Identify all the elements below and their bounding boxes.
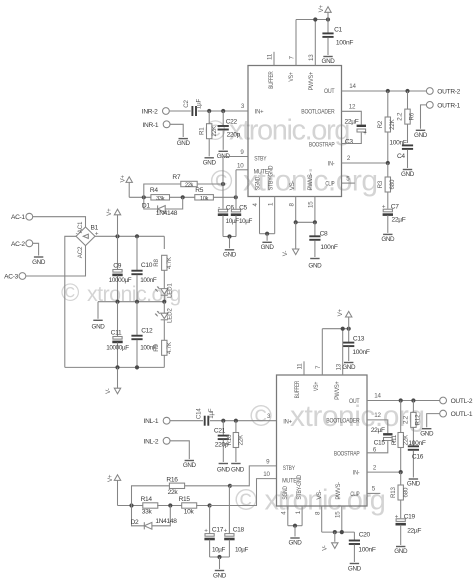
svg-text:GND: GND xyxy=(407,481,421,488)
svg-text:R15: R15 xyxy=(179,496,191,503)
svg-text:10: 10 xyxy=(263,471,270,478)
svg-text:C11: C11 xyxy=(111,329,122,336)
svg-text:C9: C9 xyxy=(113,262,121,269)
svg-text:C21: C21 xyxy=(214,427,226,434)
svg-text:OUTR-1: OUTR-1 xyxy=(437,103,460,110)
svg-text:AC1: AC1 xyxy=(77,221,84,233)
svg-text:C5: C5 xyxy=(239,205,247,212)
svg-text:VS-: VS- xyxy=(289,181,296,191)
capacitor C20 100nF xyxy=(349,531,376,562)
svg-text:IN-: IN- xyxy=(328,160,335,167)
svg-text:PWVS+: PWVS+ xyxy=(334,381,341,400)
svg-text:GND: GND xyxy=(414,132,428,139)
svg-text:C4: C4 xyxy=(397,153,405,160)
svg-text:7: 7 xyxy=(315,365,322,369)
ground R1 xyxy=(203,158,217,167)
ground C17 C18 xyxy=(213,571,227,580)
svg-text:12: 12 xyxy=(374,412,381,419)
svg-text:©: © xyxy=(235,484,257,517)
svg-text:R12: R12 xyxy=(414,414,421,426)
svg-text:14: 14 xyxy=(349,83,356,90)
terminal INL-1 xyxy=(144,417,170,425)
diode D2 1N4148 xyxy=(131,506,178,530)
svg-text:GND: GND xyxy=(32,259,46,266)
svg-text:GND: GND xyxy=(92,324,106,331)
capacitor C7 22uF xyxy=(382,204,406,233)
svg-text:22K: 22K xyxy=(211,125,218,136)
svg-text:R14: R14 xyxy=(141,496,153,503)
terminal AC-3 xyxy=(4,273,26,281)
svg-text:C16: C16 xyxy=(412,453,424,460)
wire BOOTLOADER pin 12 loop IC2 xyxy=(367,412,388,433)
svg-text:680: 680 xyxy=(402,487,409,497)
svg-text:GND: GND xyxy=(183,462,197,469)
LED2 xyxy=(155,302,173,341)
svg-text:IN+: IN+ xyxy=(283,419,292,426)
wire C6 C5 join to ground xyxy=(223,234,236,248)
svg-text:C19: C19 xyxy=(404,513,416,520)
wire STBY pin 9 xyxy=(223,149,248,209)
svg-text:R4: R4 xyxy=(150,187,158,194)
wire INR-1 to ground xyxy=(170,124,183,137)
svg-text:V-: V- xyxy=(322,545,329,551)
svg-text:V-: V- xyxy=(105,388,112,394)
svg-text:8: 8 xyxy=(288,203,295,207)
svg-text:IN-: IN- xyxy=(353,470,360,477)
capacitor C6 10uF xyxy=(218,204,235,236)
svg-text:22µF: 22µF xyxy=(345,119,359,126)
svg-text:INL-2: INL-2 xyxy=(144,438,159,445)
svg-text:22k: 22k xyxy=(185,183,194,189)
pins 8 and 15 rail xyxy=(288,197,317,225)
svg-text:AC-1: AC-1 xyxy=(11,214,25,221)
wire V- rail xyxy=(65,365,165,369)
ground C19 xyxy=(394,547,408,556)
svg-text:GND: GND xyxy=(217,467,231,474)
pin 13 riser xyxy=(308,20,315,66)
capacitor C2 1uF xyxy=(183,98,203,116)
wire AC-1 to bridge xyxy=(33,217,86,227)
svg-text:V-: V- xyxy=(282,251,289,257)
wire V+ to R4 xyxy=(129,195,151,199)
wire R5 to mute column xyxy=(214,195,238,199)
svg-text:©: © xyxy=(211,165,233,198)
svg-text:LED1: LED1 xyxy=(167,283,174,298)
svg-text:GND: GND xyxy=(308,263,322,270)
svg-text:+: + xyxy=(363,130,367,137)
svg-text:LED2: LED2 xyxy=(167,308,174,323)
ground C7 xyxy=(381,234,395,243)
svg-text:V+: V+ xyxy=(107,474,114,482)
pin 13 riser IC2 xyxy=(335,329,342,375)
svg-text:GND: GND xyxy=(213,573,227,580)
resistor R15 10k xyxy=(179,496,197,515)
pins 4 and 1 to ground IC2 xyxy=(281,506,303,537)
svg-text:C2: C2 xyxy=(183,99,190,107)
resistor R3 680 xyxy=(377,163,396,209)
svg-text:OUTR-2: OUTR-2 xyxy=(437,89,460,96)
svg-text:D1: D1 xyxy=(142,202,150,209)
capacitor C1 100nF xyxy=(322,20,353,56)
svg-text:2: 2 xyxy=(347,155,351,162)
power flag V+ (mute network R) xyxy=(119,175,132,198)
resistor R2 22K xyxy=(377,91,396,163)
capacitor C21 220p xyxy=(214,421,229,462)
wire C14 to IN+ pin 3 IC2 xyxy=(210,413,277,423)
capacitor C10 100nF xyxy=(131,236,156,301)
svg-text:100nF: 100nF xyxy=(336,40,353,47)
svg-text:11: 11 xyxy=(297,363,304,370)
svg-text:10k: 10k xyxy=(200,196,209,202)
wire C17 C18 join to ground xyxy=(210,555,230,569)
capacitor C11 10000uF xyxy=(106,302,129,368)
wire V+ rail xyxy=(95,234,164,238)
ground INR-1 xyxy=(177,139,191,148)
svg-text:R5: R5 xyxy=(195,187,203,194)
ground OUTL-1 xyxy=(420,429,434,438)
capacitor C16 100nF xyxy=(408,440,426,477)
resistor R10 22K xyxy=(226,421,245,462)
svg-text:14: 14 xyxy=(374,393,381,400)
svg-text:100nF: 100nF xyxy=(140,345,157,352)
op-amp IC1 TDA7294 (right channel) xyxy=(248,66,342,197)
svg-text:GND: GND xyxy=(381,236,395,243)
svg-text:OUT: OUT xyxy=(349,398,360,405)
resistor R4 33k xyxy=(150,187,170,202)
wire BOOSTRAP pin 6 loop xyxy=(342,133,362,144)
svg-text:2.2: 2.2 xyxy=(403,415,410,424)
svg-text:R8: R8 xyxy=(153,258,160,266)
svg-text:+: + xyxy=(382,204,386,211)
svg-text:R10: R10 xyxy=(226,434,233,446)
wire OUTL-1 to ground xyxy=(427,414,440,428)
resistor R14 33k xyxy=(141,496,158,515)
svg-text:OUTL-1: OUTL-1 xyxy=(451,411,473,418)
svg-text:9: 9 xyxy=(266,458,270,465)
ground pins 4 1 xyxy=(261,242,275,251)
svg-text:GND: GND xyxy=(394,548,408,555)
svg-text:VS+: VS+ xyxy=(288,72,295,82)
ground R10 xyxy=(217,464,245,474)
svg-text:22k: 22k xyxy=(168,489,179,496)
svg-text:PWVS-: PWVS- xyxy=(307,173,314,191)
svg-text:V+: V+ xyxy=(106,208,113,216)
ground C16 xyxy=(407,479,421,488)
svg-text:4.7K: 4.7K xyxy=(166,341,173,354)
svg-text:GND: GND xyxy=(177,140,191,147)
wire V+ rail IC1 xyxy=(296,17,330,21)
resistor R1 22K xyxy=(198,111,218,156)
pin 11 stub IC2 xyxy=(297,361,304,375)
wire C2 to IN+ pin 3 xyxy=(198,109,248,113)
svg-text:SGND: SGND xyxy=(282,486,289,500)
svg-text:C14: C14 xyxy=(196,408,203,420)
wire V+ to R14 xyxy=(118,503,144,507)
terminal OUTL-1 xyxy=(440,410,473,418)
svg-text:SGND: SGND xyxy=(255,176,262,190)
svg-text:2: 2 xyxy=(373,464,377,471)
svg-text:+: + xyxy=(224,527,228,534)
svg-text:CLIP: CLIP xyxy=(350,491,359,498)
wire MUTE pin 10 xyxy=(236,163,248,209)
ground C22 xyxy=(217,151,231,160)
svg-text:R1: R1 xyxy=(198,127,205,135)
svg-text:22µF: 22µF xyxy=(407,527,421,534)
svg-text:15: 15 xyxy=(308,201,315,208)
wire INL-2 to ground xyxy=(170,441,190,459)
capacitor C3 22uF xyxy=(345,119,368,146)
svg-text:10µF: 10µF xyxy=(239,218,253,225)
capacitor C5 10uF xyxy=(226,205,253,237)
svg-text:GND: GND xyxy=(401,171,415,178)
resistor R13 680 xyxy=(390,472,410,518)
wire AC-2 to ground xyxy=(33,243,39,255)
ground mid rail xyxy=(92,302,106,331)
svg-text:R2: R2 xyxy=(377,120,384,128)
svg-text:22K: 22K xyxy=(238,434,245,445)
pins 8 and 15 rail IC2 xyxy=(314,506,354,534)
resistor R11 22K xyxy=(391,401,410,473)
svg-text:INR-2: INR-2 xyxy=(142,109,158,116)
svg-text:10µF: 10µF xyxy=(226,218,240,225)
wire CLIP pin 5 stub xyxy=(342,176,355,184)
bridge rectifier B1 xyxy=(76,221,99,258)
svg-text:+: + xyxy=(204,527,208,534)
svg-text:V+: V+ xyxy=(318,4,325,12)
pin 11 stub xyxy=(267,52,274,66)
svg-text:33k: 33k xyxy=(142,509,153,516)
ground AC-2 xyxy=(32,257,46,266)
svg-text:©: © xyxy=(61,279,80,307)
power flag V- (IC2) xyxy=(322,532,338,551)
capacitor C12 100nF xyxy=(131,302,156,368)
svg-text:C20: C20 xyxy=(359,531,371,538)
svg-text:100nF: 100nF xyxy=(358,547,375,554)
ground C13 xyxy=(342,363,356,372)
svg-text:10µF: 10µF xyxy=(212,547,226,554)
svg-text:C17: C17 xyxy=(212,527,224,534)
svg-text:12: 12 xyxy=(349,104,356,111)
svg-text:GND: GND xyxy=(223,251,237,258)
ground C6 C5 xyxy=(223,250,237,259)
svg-text:C10: C10 xyxy=(141,262,153,269)
wire OUT pin 14 IC2 xyxy=(367,393,440,403)
svg-text:VS-: VS- xyxy=(316,490,323,500)
svg-text:4.7K: 4.7K xyxy=(166,256,173,269)
svg-text:AC2: AC2 xyxy=(77,246,84,258)
svg-text:10000µF: 10000µF xyxy=(109,277,132,284)
svg-text:2.2: 2.2 xyxy=(397,112,404,121)
ground C20 xyxy=(348,564,362,573)
svg-text:3: 3 xyxy=(241,103,245,110)
svg-text:4: 4 xyxy=(252,203,259,207)
pin 7 riser IC2 xyxy=(315,329,322,375)
svg-text:GND: GND xyxy=(420,430,434,437)
capacitor C8 100nF xyxy=(309,222,338,257)
capacitor C14 1uF xyxy=(196,408,216,426)
svg-text:C7: C7 xyxy=(391,204,399,211)
svg-text:13: 13 xyxy=(308,54,315,61)
svg-text:V+: V+ xyxy=(119,175,126,183)
power flag V- (IC1) xyxy=(282,222,299,256)
ground C21 xyxy=(219,463,228,465)
svg-text:33k: 33k xyxy=(156,196,165,202)
svg-text:GND: GND xyxy=(261,244,275,251)
svg-text:D2: D2 xyxy=(131,519,139,526)
svg-text:-: - xyxy=(218,204,220,211)
capacitor C19 22uF xyxy=(395,513,422,545)
svg-text:GND: GND xyxy=(322,58,336,65)
wire STBY pin 9 IC2 xyxy=(230,458,277,486)
svg-text:AC-2: AC-2 xyxy=(11,241,25,248)
capacitor C15 22uF xyxy=(371,427,395,447)
svg-text:STBY-GND: STBY-GND xyxy=(267,165,274,190)
svg-text:22µF: 22µF xyxy=(371,427,385,434)
svg-text:GND: GND xyxy=(348,566,362,573)
svg-text:100nF: 100nF xyxy=(320,244,337,251)
svg-text:BUFFER: BUFFER xyxy=(294,381,301,399)
svg-text:9: 9 xyxy=(240,149,244,156)
svg-text:R6: R6 xyxy=(408,112,415,120)
wire R4 to R5 xyxy=(169,195,194,199)
wire IN- pin 2 xyxy=(342,155,390,165)
svg-text:-: - xyxy=(76,230,78,237)
pin 7 riser xyxy=(289,20,296,66)
op-amp IC2 TDA7294 (left channel) xyxy=(277,375,368,506)
wire R14 to R15 xyxy=(157,503,182,507)
svg-text:R7: R7 xyxy=(172,174,180,181)
capacitor C17 10uF xyxy=(204,506,224,558)
wire R15 to MUTE step xyxy=(196,503,256,507)
svg-text:10µF: 10µF xyxy=(235,547,249,554)
terminal AC-2 xyxy=(11,240,33,248)
resistor R5 10k xyxy=(195,187,214,202)
svg-text:STBY-GND: STBY-GND xyxy=(296,475,303,500)
svg-text:GND: GND xyxy=(342,364,356,371)
svg-text:CLIP: CLIP xyxy=(325,181,334,188)
wire MUTE pin 10 IC2 xyxy=(210,471,277,506)
wire INL-1 to C14 xyxy=(170,420,203,422)
svg-text:15: 15 xyxy=(334,511,341,518)
svg-text:10: 10 xyxy=(237,163,244,170)
svg-text:1N4148: 1N4148 xyxy=(155,518,177,525)
svg-text:R11: R11 xyxy=(391,434,398,445)
svg-text:1N4148: 1N4148 xyxy=(156,210,178,217)
resistor R16 22k xyxy=(132,476,232,505)
svg-text:100nF: 100nF xyxy=(352,349,369,356)
wire INR-2 to C2 xyxy=(169,110,191,112)
svg-text:INR-1: INR-1 xyxy=(142,122,158,129)
resistor R7 22k xyxy=(144,174,225,197)
svg-text:7: 7 xyxy=(289,56,296,60)
svg-text:C1: C1 xyxy=(334,27,342,34)
svg-text:BOOTLOADER: BOOTLOADER xyxy=(326,417,360,424)
svg-text:22K: 22K xyxy=(389,118,396,129)
power flag V+ (mute network L) xyxy=(107,474,121,505)
svg-text:INL-1: INL-1 xyxy=(144,418,159,425)
ground INL-2 xyxy=(183,461,197,470)
wire V+ rail IC2 xyxy=(322,327,351,331)
svg-text:1: 1 xyxy=(267,202,274,206)
wire AC-3 to bridge xyxy=(26,246,86,276)
power flag V+ (supply) xyxy=(106,208,121,236)
svg-text:C18: C18 xyxy=(233,527,245,534)
power flag V+ (IC1) xyxy=(318,4,331,19)
wire OUT pin 14 xyxy=(342,83,427,93)
power flag V- (supply) xyxy=(105,367,121,393)
capacitor C4 100nF xyxy=(389,140,413,168)
svg-text:OUTL-2: OUTL-2 xyxy=(451,398,473,405)
svg-text:BOOTLOADER: BOOTLOADER xyxy=(301,109,335,116)
resistor R12 2.2 xyxy=(403,401,422,446)
svg-text:C3: C3 xyxy=(345,138,353,145)
svg-text:680: 680 xyxy=(389,179,396,189)
svg-text:R13: R13 xyxy=(390,486,397,498)
svg-text:AC-3: AC-3 xyxy=(4,274,18,281)
ground pins 4 1 IC2 xyxy=(289,538,303,547)
svg-text:22µF: 22µF xyxy=(392,217,406,224)
terminal INR-2 xyxy=(142,108,170,116)
svg-text:V+: V+ xyxy=(337,308,344,316)
resistor R9 4.7K xyxy=(153,340,173,367)
svg-text:OUT: OUT xyxy=(324,88,335,95)
ground OUTR-1 xyxy=(414,130,428,139)
svg-text:GND: GND xyxy=(231,467,245,474)
svg-text:BOOSTRAP: BOOSTRAP xyxy=(309,142,335,149)
svg-text:10k: 10k xyxy=(184,509,195,516)
ground C8 xyxy=(308,259,322,270)
diode D1 1N4148 xyxy=(142,197,183,217)
svg-text:220p: 220p xyxy=(227,132,241,139)
wire bridge minus to V- rail xyxy=(65,236,76,367)
svg-text:C8: C8 xyxy=(320,231,328,238)
svg-text:C12: C12 xyxy=(141,328,153,335)
svg-text:+: + xyxy=(395,513,399,520)
svg-text:PWVS+: PWVS+ xyxy=(308,72,315,91)
svg-text:R16: R16 xyxy=(166,476,178,483)
svg-text:STBY: STBY xyxy=(254,155,267,162)
wire GND mid rail xyxy=(98,300,166,304)
wire BOOTLOADER pin 12 loop xyxy=(342,104,362,125)
svg-text:100nF: 100nF xyxy=(140,277,157,284)
svg-text:MUTE: MUTE xyxy=(254,168,269,175)
terminal AC-1 xyxy=(11,213,33,221)
svg-text:IN+: IN+ xyxy=(255,108,264,115)
LED1 xyxy=(155,283,173,302)
resistor R8 4.7K xyxy=(153,236,173,288)
svg-text:BOOSTRAP: BOOSTRAP xyxy=(334,450,360,457)
wire BOOSTRAP pin 6 loop IC2 xyxy=(367,441,388,453)
svg-text:GND: GND xyxy=(289,540,303,547)
svg-text:10000µF: 10000µF xyxy=(106,345,129,352)
capacitor C13 100nF xyxy=(343,329,370,361)
svg-text:STBY: STBY xyxy=(283,465,296,472)
capacitor C9 10000uF xyxy=(109,236,132,301)
wire CLIP pin 5 stub IC2 xyxy=(367,486,380,494)
svg-text:MUTE: MUTE xyxy=(282,478,297,485)
terminal OUTR-1 xyxy=(426,102,460,110)
decor xyxy=(61,115,425,518)
terminal OUTL-2 xyxy=(440,397,473,405)
pins 4 and 1 to ground xyxy=(252,197,275,241)
wire OUTR-1 to ground xyxy=(421,105,427,129)
wire IN- pin 2 IC2 xyxy=(367,464,403,474)
svg-text:GND: GND xyxy=(203,159,217,166)
svg-text:PWVS-: PWVS- xyxy=(335,482,342,500)
power flag V+ (IC2) xyxy=(337,308,352,328)
ground C4 xyxy=(401,170,415,179)
pin 3 label xyxy=(241,103,245,110)
